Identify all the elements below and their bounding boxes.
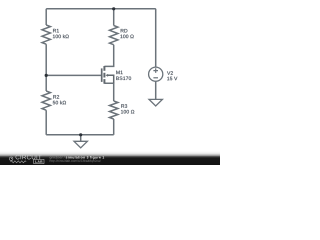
- resistor R1: [42, 25, 50, 44]
- label 15 V: [167, 77, 177, 80]
- wire R3 bottom lead: [113, 119, 115, 135]
- wire V2 bottom lead: [155, 81, 157, 99]
- wire source to R3: [104, 83, 113, 101]
- label R3: [121, 104, 127, 108]
- watermark text: [50, 156, 104, 163]
- node junction gate: [45, 74, 48, 77]
- label 50 kΩ: [53, 101, 66, 105]
- label 100 Ω: [120, 35, 133, 39]
- node junction top: [112, 7, 115, 10]
- wire gate net: [46, 74, 101, 76]
- label R2: [53, 95, 59, 98]
- label R1: [53, 29, 59, 32]
- wire RD bottom to drain: [104, 45, 113, 67]
- wire R2 bottom lead: [45, 110, 47, 135]
- node junction ground: [79, 133, 82, 136]
- logo CircuitLab: [10, 155, 45, 164]
- label 100 Ω: [121, 110, 134, 114]
- label BS170: [116, 77, 131, 81]
- ground GND1: [74, 141, 87, 148]
- label V2: [167, 71, 173, 74]
- wire V2 top lead: [155, 9, 157, 67]
- wire R1 bottom to R2 top: [45, 44, 47, 91]
- wire bottom rail: [46, 134, 114, 136]
- resistor R3: [109, 101, 117, 119]
- watermark bar: [0, 151, 220, 165]
- wire R1 top lead: [45, 9, 47, 25]
- wire RD top lead: [113, 9, 115, 26]
- resistor R2: [42, 91, 50, 110]
- transistor M1: [102, 66, 114, 84]
- wire ground stub: [80, 135, 82, 142]
- ground GND2: [149, 99, 162, 106]
- voltage source V2: [149, 67, 163, 81]
- label 100 kΩ: [53, 34, 69, 38]
- resistor RD: [109, 26, 117, 45]
- wire top rail: [46, 8, 156, 10]
- label M1: [116, 71, 122, 74]
- label RD: [121, 29, 128, 32]
